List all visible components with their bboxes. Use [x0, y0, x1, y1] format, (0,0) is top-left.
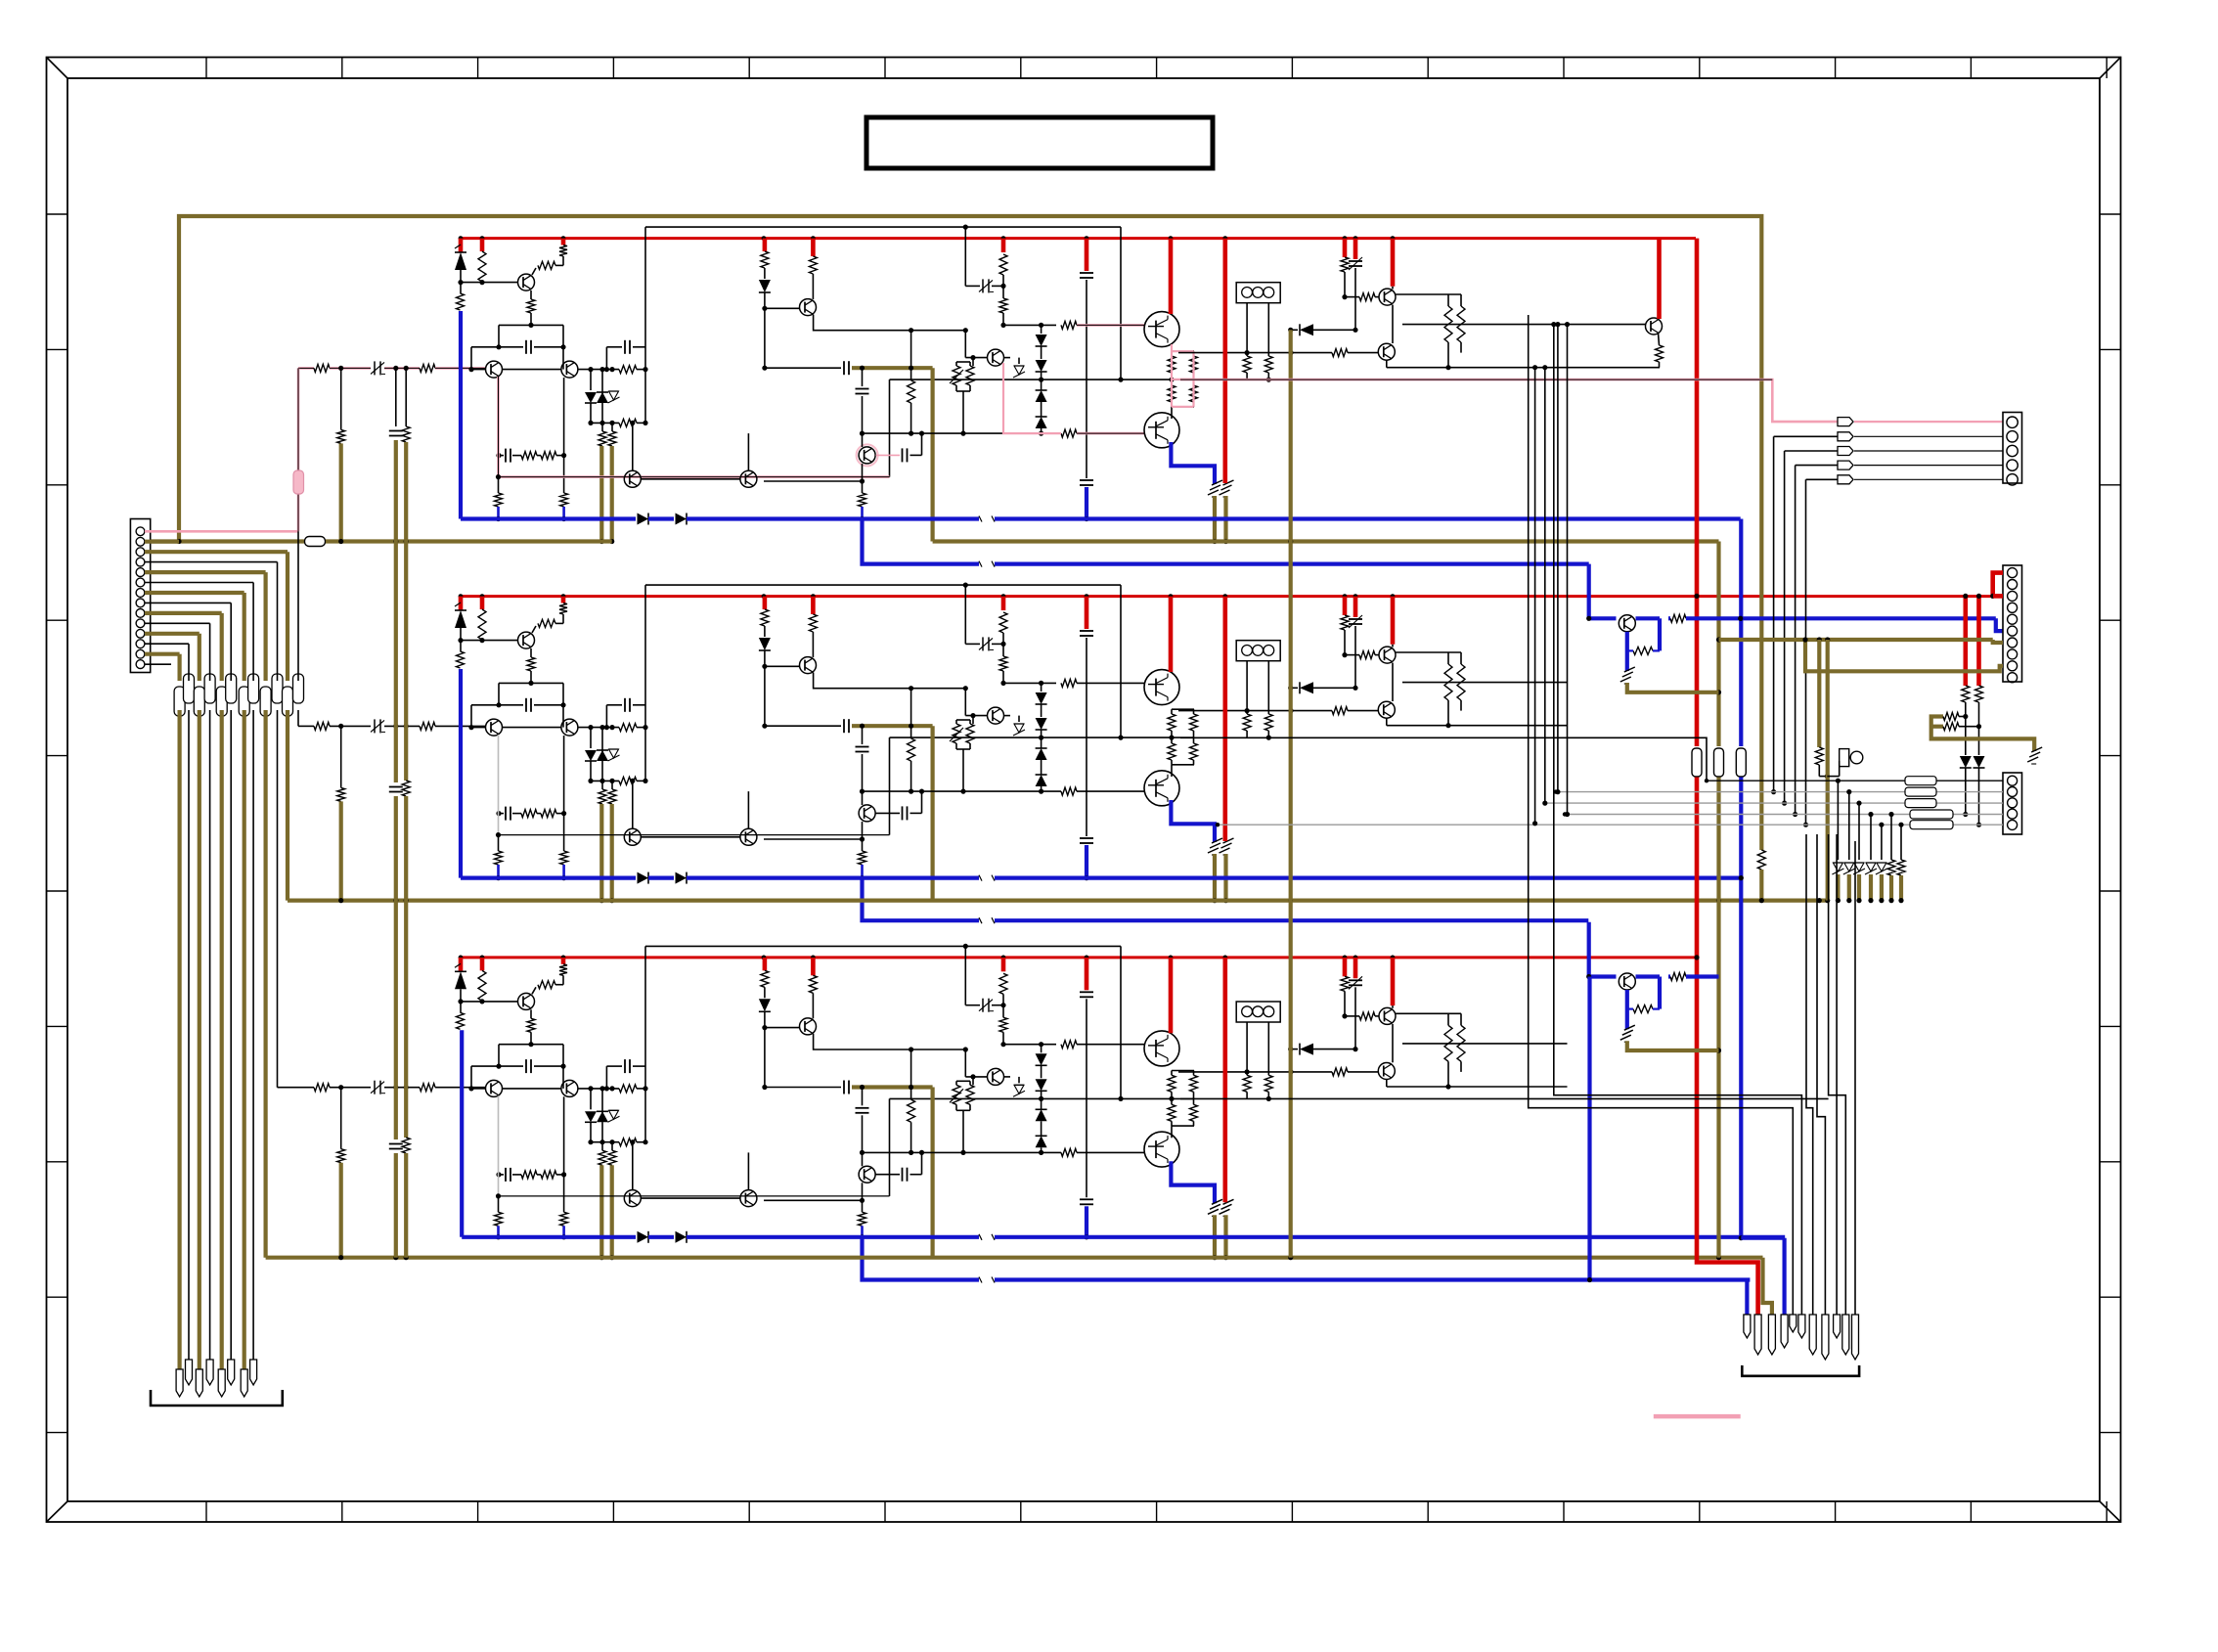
wire ch1 C5 to blue bus: [1085, 487, 1088, 519]
wire ch1 C10 right: [910, 454, 922, 456]
wire ch2 drive base row: [1345, 654, 1359, 656]
junction ch3 red rail tap: [1391, 956, 1396, 960]
wire ch3 red stub R11: [1001, 958, 1006, 971]
wire ch3 blue branch: [863, 1237, 1751, 1280]
resistor ch2 R16: [1061, 787, 1077, 795]
transistor ch1 Q1 current mirror: [518, 274, 535, 290]
wire ch2 Q4 base row: [765, 665, 800, 667]
wire ch3 tail right drop: [562, 1045, 564, 1089]
wire ch1 Qtop base: [1077, 324, 1144, 327]
wire res drop x1944: [1900, 825, 1902, 860]
wire ch2 comp drop 2: [605, 705, 607, 728]
capacitor ch2 C8 slashed: [1349, 618, 1362, 620]
transistor ch1 Q9: [1378, 343, 1395, 360]
diode ch2 D5a: [1041, 683, 1042, 692]
wire ch2 +V red rail: [461, 595, 1993, 598]
wire ch3 fb row: [499, 1174, 504, 1176]
wire ch1 Q13 emitter: [1659, 334, 1660, 346]
wire ch1 tail left drop: [498, 325, 500, 346]
capacitor row below J1: [174, 687, 185, 716]
resistor ch1 R12: [1061, 321, 1077, 329]
resistor ch1 R30: [859, 493, 866, 507]
diode ch3 D4 zener: [609, 1109, 619, 1111]
resistor filter x415 ch3: [402, 1138, 410, 1153]
wire ch2 D8 right: [1313, 687, 1355, 689]
diode ch3 D1 zener: [455, 971, 466, 989]
wire ch2 bias base riser: [964, 689, 966, 716]
wire zener drop x1879: [1837, 781, 1839, 860]
junction ch2 red rail tap: [459, 594, 464, 599]
capacitor ch1 C5: [1080, 479, 1093, 481]
capacitor ch2 C4: [1080, 630, 1093, 632]
wire ch1 row 375: [1387, 367, 1660, 369]
wire ch2 OOO pin1: [1246, 661, 1248, 714]
wire ch2 row292 right: [992, 643, 1003, 645]
resistor ch2 R2: [478, 609, 486, 640]
transistor ch3 Q11: [624, 1190, 641, 1207]
diode ch3 D8: [1291, 1049, 1298, 1050]
wire J3 B lower: [1978, 702, 1980, 755]
connector J2 top right: [2003, 413, 2022, 484]
resistor shunt x1944: [1897, 860, 1905, 875]
wire ch3 Q8 right row: [1396, 1012, 1461, 1014]
label box row4: [1910, 810, 1953, 819]
wire ch3 Q1 collector: [532, 987, 536, 994]
wire ch2 C10 riser: [921, 791, 923, 813]
transistor ch1 Q12: [740, 470, 757, 487]
wire ch2 fb row: [499, 813, 504, 815]
junction ch3 red rail tap: [1169, 956, 1174, 960]
resistor ch2 R7: [619, 777, 637, 784]
resistor ch2 R10: [809, 614, 817, 632]
wire drop x203: [198, 634, 201, 681]
wire chb QB collector: [1636, 974, 1661, 978]
wire ch1 OOO pin3: [1267, 303, 1269, 356]
wire ch1 mid row: [890, 379, 1173, 380]
wire bundle x1882: [1854, 841, 1856, 1315]
wire ch2 Q11 collector: [632, 781, 634, 828]
wire ch2 row 331: [1402, 682, 1568, 684]
resistor ch2 R10a: [761, 609, 769, 626]
wire ch1 base node down: [764, 308, 766, 368]
resistor ch1 R10a: [761, 251, 769, 268]
wire bundle x1569: [1534, 368, 1536, 824]
wire ch1 pink Q2 emitter drop: [499, 377, 890, 477]
resistor ch3 R27: [541, 1171, 556, 1179]
wire ch1 Q8 emitter: [1392, 305, 1394, 343]
wire ch1 blue branch: [863, 519, 1589, 564]
wire sense A: [1959, 716, 1966, 718]
wire zener olive x1890: [1847, 874, 1851, 901]
wire ch1 emitter node top: [1172, 350, 1194, 352]
resistor ch3 R6: [619, 1085, 637, 1093]
resistor ch3 R4: [559, 964, 567, 976]
wire ch2 output row: [1178, 710, 1332, 712]
wire J1 pin row y574: [145, 561, 278, 563]
wire ch2 rail stub R24: [1343, 597, 1348, 615]
diode ch2 D9 on blue: [638, 872, 649, 884]
resistor ch1 R23: [1264, 356, 1272, 373]
zener shunt x1923: [1877, 862, 1886, 864]
wire ch3 row292 right: [992, 1005, 1003, 1006]
capacitor ch2 C1: [525, 698, 527, 712]
wire pink input riser: [297, 368, 300, 531]
resistor ch2 R33: [1460, 652, 1462, 664]
wire ch3 R11 down: [1002, 994, 1004, 1017]
transistor ch3 Q9: [1378, 1063, 1395, 1080]
transistor ch1 Q7 output bottom: [1144, 413, 1179, 448]
wire ch3 lower node row: [591, 1141, 619, 1143]
wire ch3 olive link: [852, 1085, 933, 1089]
wire olive drop x1868: [1826, 640, 1830, 901]
resistor ch2 R5 Q1 emitter: [527, 657, 535, 671]
resistor ch2 R12: [1061, 679, 1077, 687]
wire ch1 R6 to node: [637, 369, 645, 371]
capacitor ch3 C6: [843, 1081, 845, 1094]
wire J1 pin row y606: [145, 591, 244, 595]
capacitor ch3 C7: [856, 1107, 869, 1109]
wire ch2 Q12 collector: [747, 791, 749, 828]
wire cha QB emitter: [1625, 632, 1629, 671]
wire ch2 comp row: [534, 704, 563, 706]
resistor ch1 R1 top: [457, 293, 465, 310]
wire ch1 lower node row: [591, 422, 619, 424]
capacitor ch1 C4: [1080, 272, 1093, 274]
wire ch2 red stub C4: [1085, 597, 1089, 629]
wire ch1 Q1 collector: [532, 268, 536, 275]
bus entry J2 pin5: [1838, 475, 1853, 484]
wire ch3 red stub Q8: [1391, 958, 1396, 1005]
resistor J3 B: [1975, 686, 1983, 702]
resistor ch1 R19: [1168, 385, 1176, 402]
transistor ch1 Q11: [624, 470, 641, 487]
junction ch1 red rail tap: [1391, 236, 1396, 241]
wire ch3 R29 to blue: [497, 1226, 500, 1237]
wire ch1 Q3 collector row: [578, 369, 619, 371]
resistor ch1 input shunt: [337, 429, 345, 443]
wire ch2 -V blue bus: [461, 875, 636, 879]
wire J4 row5: [1218, 824, 2003, 826]
junction ch1 red rail tap: [1222, 236, 1227, 241]
wire drop x271: [264, 572, 268, 681]
wire ch3 drop x987: [964, 946, 966, 1005]
wire trunk x1813: [1773, 436, 1775, 791]
diode ch3 D5a: [1041, 1045, 1042, 1053]
wire ch3 fb branch: [862, 1088, 864, 1106]
wire hop ch3 on blue bus: [979, 1233, 995, 1241]
diode ch1 D10 on blue: [676, 513, 688, 525]
wire ch2 cap link row: [765, 725, 841, 727]
wire ch3 input to diff pair base: [435, 1087, 486, 1089]
resistor ch1 R13 trimmer: [953, 366, 960, 385]
wire ch2 Q10 emitter: [862, 822, 864, 851]
transistor ch3 Q1 current mirror: [518, 993, 535, 1009]
wire ch3 output row: [1178, 1071, 1332, 1073]
diode ch3 D3: [601, 1089, 603, 1122]
junction ch1 input at olive drop: [338, 366, 343, 371]
wire ch3 red stub R4: [561, 958, 566, 964]
wire ch3 comp row: [534, 1065, 563, 1067]
wire ch3 Q4 emitter: [814, 1034, 966, 1049]
wire ch2 Qbot base: [1077, 790, 1144, 792]
wire ch3 blue to pentagon: [1741, 1236, 1784, 1240]
junction ch2 red rail tap: [1169, 594, 1174, 599]
wire ch2 zz olive stubs: [1213, 854, 1217, 901]
resistor ch3 input shunt: [337, 1149, 345, 1163]
resistor ch1 R18: [1190, 356, 1198, 373]
wire ch2 fb branch: [862, 726, 864, 744]
connector ch1 J-OOO box: [1236, 283, 1280, 303]
wire ch3 C5 to blue bus: [1085, 1206, 1088, 1237]
wire ch1 R11 down: [1002, 275, 1004, 298]
resistor ch2 input series 2: [420, 722, 435, 730]
wire ch1 input to diff pair base: [435, 367, 486, 370]
wire ch1 R28 to blue: [562, 507, 565, 519]
junction ch3 red rail tap: [1343, 956, 1348, 960]
diode ch1 D3: [601, 370, 603, 403]
wire ch3 emitter node top: [1172, 1070, 1194, 1072]
resistor ch3 R22: [1243, 1075, 1251, 1092]
junction ch3 red rail tap: [762, 956, 767, 960]
capacitor ch3 C9: [505, 1168, 507, 1182]
wire ch3 input shunt olive tail: [339, 1163, 343, 1258]
resistor ch3 R32: [1447, 1013, 1449, 1025]
wire ch3 mid row: [890, 1097, 1173, 1099]
junction ch1 red rail tap: [762, 236, 767, 241]
wire ch1 drive base row: [1345, 296, 1359, 298]
wire olive trunk lower: [1716, 778, 1720, 1258]
wire res olive x1934: [1889, 875, 1893, 901]
resistor ch2 R1 top: [457, 651, 465, 668]
resistor ch3 R3: [538, 981, 555, 989]
diode ch1 D11: [759, 280, 771, 292]
wire ch3 row 375: [1387, 1086, 1568, 1088]
wire ch2 row292: [965, 643, 980, 645]
resistor ch2 R17: [1168, 714, 1176, 731]
resistor ch1 R32: [1447, 294, 1449, 306]
wire ch1 shunt drop x348: [340, 368, 342, 429]
wire ch2 Q8 right row: [1396, 651, 1461, 653]
resistor ch3 R18: [1190, 1075, 1198, 1092]
wire drop x259: [252, 583, 254, 682]
wire bundle x1847: [1806, 834, 1813, 1315]
wire ch2 Q8 emitter: [1392, 663, 1394, 701]
resistor ch2 R21: [1332, 707, 1348, 715]
wire hop ch2 on blue branch: [979, 916, 995, 924]
wire ch3 red stub C4: [1085, 958, 1089, 990]
resistor ch1 input series 2: [420, 364, 435, 372]
resistor ch3 R14: [966, 1085, 974, 1104]
wire ch1 blue bus mid: [648, 516, 674, 520]
wire ch3 input: [384, 1087, 420, 1089]
wire ch3 blue bus mid: [648, 1235, 674, 1239]
connector J1 left: [130, 519, 150, 673]
wire ch2 follower row: [764, 838, 863, 840]
wire ch1 drop x987: [964, 227, 966, 286]
wire zener olive x1901: [1857, 874, 1861, 901]
junction ch1 red rail tap: [1001, 236, 1006, 241]
wire ch2 red stub R11: [1001, 597, 1006, 610]
capacitor ch2 C7: [856, 746, 869, 748]
junction ch1 red rail tap: [1169, 236, 1174, 241]
wire ch2 red stub Q5: [1169, 597, 1174, 672]
junction ch3 input at olive drop: [338, 1085, 343, 1090]
wire ch3 +V red rail: [461, 956, 1697, 959]
wire ch1 emitter node mid: [1172, 379, 1194, 380]
resistor ch2 R30: [859, 851, 866, 865]
wire ch3 Q11 collector: [632, 1142, 634, 1190]
capacitor ch1 C7: [856, 388, 869, 390]
transistor cha QB: [1619, 615, 1635, 632]
wire ch3 tail left drop: [498, 1045, 500, 1066]
resistor ch3 R10: [809, 975, 817, 993]
wire ch1 Qbot base: [1077, 432, 1144, 435]
capacitor filter x404 ch1: [389, 430, 403, 432]
wire ch3 D1 to mirror node: [460, 989, 462, 1002]
transistor ch3 Q6 bias: [988, 1068, 1004, 1085]
wire olive trunk x1319: [1289, 330, 1293, 1257]
connector J3 mid right: [2003, 565, 2022, 682]
resistor filter x415 ch1: [402, 426, 410, 442]
resistor ch3 R23: [1264, 1075, 1272, 1092]
wire drop x193: [188, 644, 190, 681]
wire ch3 OOO pin1: [1246, 1022, 1248, 1075]
wire ch1 D1 to mirror node: [460, 270, 462, 283]
wire ch3 R28 to blue: [562, 1226, 565, 1237]
wire ch3 R10 to Q4: [812, 993, 814, 1018]
wire ch2 comp drop to base: [470, 705, 472, 728]
wire ch2 Q6 base: [965, 715, 987, 717]
wire trunk x1835: [1795, 466, 1797, 815]
junction ch1 input at filter caps: [393, 366, 398, 371]
wire ch2 red stub R4: [561, 597, 566, 603]
transistor ch2 Q4: [800, 657, 817, 674]
wire ch2 mid row to right block: [1180, 737, 1707, 781]
resistor ch1 R16: [1061, 429, 1077, 437]
connector J4 low right: [2003, 773, 2022, 834]
title box: [866, 117, 1213, 168]
wire J1 pin row y616: [145, 602, 231, 603]
capacitor ch1 C10: [902, 448, 904, 462]
wire ch1 C10 riser: [921, 433, 923, 455]
wire ch2 blue branch: [863, 878, 1589, 921]
resistor ch2 R11b: [999, 656, 1007, 671]
junction ch3 red rail tap: [811, 956, 816, 960]
lamp indicator: [1840, 749, 1849, 767]
wire ch3 shunt drop x348: [340, 1088, 342, 1149]
wire ch3 Q6 base: [965, 1076, 987, 1078]
resistor ch3 R29: [495, 1212, 503, 1226]
connector ch3 J-OOO box: [1236, 1002, 1280, 1022]
wire ch1 R30 to blue: [861, 507, 864, 519]
wire ch1 red stub Q5: [1169, 239, 1174, 314]
wire zener olive x1913: [1869, 874, 1873, 901]
resistor ch1 R4: [559, 246, 567, 257]
wire ch2 tail right drop: [562, 683, 564, 727]
junction ch2 red rail tap: [561, 594, 566, 599]
diode J3 A: [1960, 756, 1972, 768]
wire res olive x1944: [1899, 875, 1903, 901]
wire ch2 emitter node bottom: [1172, 764, 1194, 766]
wire ch2 comp row left: [471, 704, 523, 706]
border ticks top and bottom: [205, 58, 207, 79]
wire ch3 base node down: [764, 1028, 766, 1088]
wire ch1 olive link: [852, 366, 933, 370]
wire ch2 tail left drop: [498, 683, 500, 704]
capacitor ch3 C2: [624, 1059, 626, 1073]
wire bundle x1588: [1554, 325, 1802, 1315]
wire ch3 OOO pin3: [1267, 1022, 1269, 1075]
wire ch3 zz olive stubs: [1213, 1215, 1217, 1257]
wire J3 A lower: [1965, 702, 1967, 755]
wire ch2 C5 to blue bus: [1085, 845, 1088, 878]
ground chb: [1620, 1035, 1631, 1040]
wire ch3 input: [330, 1087, 371, 1089]
wire drop x226: [220, 613, 224, 681]
resistor ch1 R33: [1460, 294, 1462, 306]
resistor ch1 R29: [495, 493, 503, 507]
wire ch3 D8 right: [1313, 1049, 1355, 1050]
wire ch2 node vertical: [644, 585, 646, 781]
ground ch3 zz1: [1208, 1209, 1219, 1214]
wire ch3 Q10 emitter: [862, 1183, 864, 1212]
wire ch2 R29 drop: [498, 835, 500, 851]
resistor ch3 R24: [1341, 976, 1349, 991]
transistor ch2 Q5 output top: [1144, 670, 1179, 705]
wire ch1 -V blue bus: [461, 516, 636, 520]
wire ch1 red stub R11: [1001, 239, 1006, 252]
wire ch1 Q1 emitter: [530, 290, 532, 299]
capacitor ch1 C9: [505, 449, 507, 463]
resistor ch1 R3: [538, 261, 555, 269]
capacitor ch1 C6: [843, 361, 845, 375]
wire zener drop x1923: [1881, 825, 1883, 860]
wire ch3 Q10 collector: [862, 1152, 864, 1166]
resistor ch2 R9: [608, 789, 616, 804]
diode ch3 D5b: [1036, 1079, 1047, 1091]
wire bundle x1869: [1829, 834, 1846, 1315]
wire ch3 emitter node mid: [1172, 1097, 1194, 1099]
wire ch1 Q3 emitter drop: [563, 378, 565, 493]
wire ch1 rail stub R24: [1343, 239, 1348, 257]
wire ch2 blue riser: [459, 669, 463, 878]
wire ch1 R10a tail: [764, 268, 766, 279]
wire ch3 D11 to base node: [764, 1011, 766, 1027]
transistor ch1 Q8: [1379, 289, 1396, 305]
junction ch2 input at olive drop: [338, 724, 343, 729]
wire ch1 OOO pin1: [1246, 303, 1248, 356]
resistor sense B: [1943, 723, 1959, 731]
wire ch3 mid row to right: [1180, 1097, 1829, 1099]
wire ch1 R29 to blue: [497, 507, 500, 519]
wire J3 red pin1: [1993, 573, 2003, 597]
wire ch2 Q10 collector: [862, 791, 864, 805]
diode ch2 D10 on blue: [676, 872, 688, 884]
wire ch1 input: [330, 367, 371, 370]
junction ch2 red rail tap: [1001, 594, 1006, 599]
resistor ch3 R21: [1332, 1068, 1348, 1076]
wire cha blue drive row: [1587, 564, 1591, 619]
wire ch1 pink bias drop: [1003, 363, 1061, 433]
label box row2: [1905, 787, 1936, 796]
wire ch2 red stub D1: [459, 597, 464, 610]
resistor ch2 R4: [559, 603, 567, 615]
diode ch2 D1 zener: [455, 610, 466, 628]
resistor ch2 R26: [521, 810, 537, 818]
wire drop x214: [209, 623, 211, 681]
wire chb QB emitter: [1625, 990, 1629, 1029]
varistor ch3 row292: [982, 999, 984, 1012]
